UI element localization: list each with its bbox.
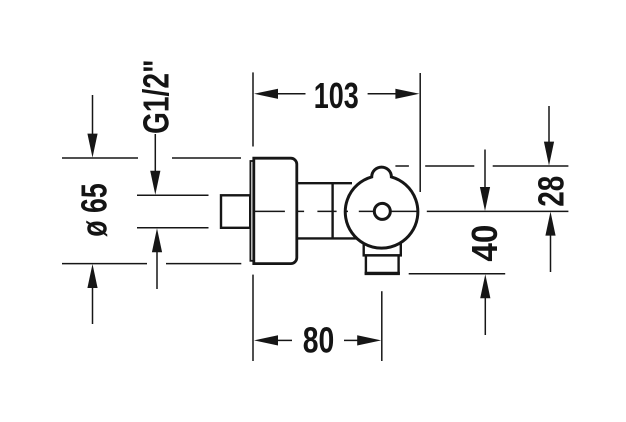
dim 103 leader left [277,93,306,95]
dim 103 left extension line [252,72,254,146]
valve inlet stub (G1/2 connector) [221,195,250,228]
dim 40 up arrow tail [484,296,486,335]
valve body joint line [331,183,333,238]
svg-text:40: 40 [464,225,505,262]
dim 40 down arrow tail [484,150,486,190]
valve body cylinder [297,183,356,238]
arrowhead 80 right [357,335,381,345]
arrowhead 40 up [480,274,490,298]
arrowhead 103 left [254,89,278,99]
dim 103 right extension line [419,73,421,192]
outlet lower section [366,255,399,273]
svg-text:28: 28 [531,176,572,207]
arrowhead o65 down [87,134,97,158]
arrowhead 28 down [544,142,554,166]
outlet bottom thick edge [365,272,400,275]
escutcheon flange (o65) [254,158,297,263]
arrowhead 80 left [254,335,278,345]
center axis dash line [254,210,569,212]
dim o65 bottom extension line [62,263,241,265]
dim 103 leader right [368,93,397,95]
dim o65 top arrow tail [92,95,94,136]
handle knob circle with top bump [345,167,418,248]
svg-text:G1/2": G1/2" [136,60,177,135]
outlet upper section [364,242,401,255]
arrowhead o65 up [87,264,97,288]
dim o65 bottom arrow tail [92,286,94,324]
dim 28 down arrow tail [548,106,550,144]
dim 28 up arrow tail [550,234,552,272]
svg-text:103: 103 [314,75,359,116]
dim 40 bottom extension line [409,273,506,275]
arrowhead 40 down [480,187,490,211]
dim 80 right extension line [381,291,383,361]
dim o65 top extension line [62,157,241,159]
escutcheon back plate lip [250,161,253,261]
svg-text:ø 65: ø 65 [74,183,115,237]
dim G1/2 top extension line [137,194,209,196]
dim 80 leader left [277,339,293,341]
arrowhead 28 up [545,212,555,236]
arrowhead G1/2 down [150,171,160,195]
dim G1/2 up arrow tail [156,250,158,289]
dim G1/2 leader arrow tail [154,134,156,173]
dim 80 leader right [344,339,359,341]
arrowhead G1/2 up [152,228,162,252]
svg-text:80: 80 [303,320,335,361]
dim 28 top extension line segments [395,165,568,167]
dim G1/2 bottom extension line [137,227,209,229]
dim 80 left extension line [252,275,254,361]
arrowhead 103 right [395,89,419,99]
handle center hole [374,203,390,219]
